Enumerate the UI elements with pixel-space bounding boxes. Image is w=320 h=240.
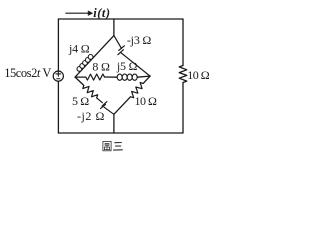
current arrow i(t) bbox=[66, 11, 93, 16]
resistor 10 ohm (right wall) bbox=[179, 66, 187, 83]
svg-text:-j3 Ω: -j3 Ω bbox=[127, 33, 152, 47]
svg-text:j5 Ω: j5 Ω bbox=[116, 59, 138, 73]
svg-text:5 Ω: 5 Ω bbox=[72, 94, 89, 108]
wire: left wall upper segment bbox=[57, 19, 59, 71]
svg-text:10 Ω: 10 Ω bbox=[135, 94, 158, 108]
voltage source VS (15cos2t V) bbox=[53, 71, 63, 81]
caption 圖三 (figure three) bbox=[103, 141, 123, 150]
inductor j5 (middle branch right) bbox=[117, 74, 150, 80]
wire: right wall upper segment bbox=[182, 19, 184, 66]
capacitor -j2 (arm left node to bottom node, lower part) bbox=[97, 98, 114, 114]
wire: stub from top wire to bridge top node bbox=[113, 19, 115, 36]
svg-text:-j2 Ω: -j2 Ω bbox=[77, 109, 105, 123]
svg-text:15cos2t V: 15cos2t V bbox=[4, 66, 51, 80]
wire: right wall lower segment bbox=[182, 83, 184, 134]
svg-text:i(t): i(t) bbox=[93, 6, 110, 20]
resistor 8 ohm (middle branch left) bbox=[75, 74, 117, 80]
resistor 5 ohm (arm left node to bottom node, upper part) bbox=[75, 77, 98, 98]
capacitor -j3 (arm top node to right node) bbox=[114, 36, 150, 77]
wire: bottom side of outer loop bbox=[58, 132, 183, 134]
inductor j4 (arm top node to left node) bbox=[75, 36, 114, 78]
resistor 10 ohm (arm right node to bottom node) bbox=[114, 76, 150, 114]
svg-text:10 Ω: 10 Ω bbox=[187, 68, 210, 82]
wire: left wall lower segment bbox=[57, 81, 59, 133]
svg-text:8 Ω: 8 Ω bbox=[92, 60, 110, 74]
svg-text:j4 Ω: j4 Ω bbox=[68, 42, 90, 56]
wire: stub from bridge bottom node to bottom wire bbox=[113, 114, 115, 133]
wire: top side of outer loop bbox=[58, 18, 183, 20]
